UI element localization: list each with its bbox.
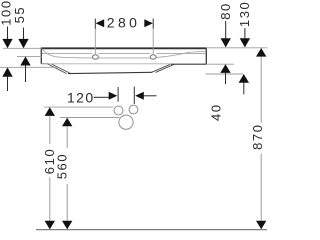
dimension 55 upper stem — [23, 28, 25, 40]
tap hole right — [150, 55, 156, 59]
dimension 610 down arrow — [45, 221, 55, 230]
extension line rim right — [207, 47, 268, 49]
dimension 55 down arrow — [18, 39, 28, 48]
dimension 280 right tick — [152, 19, 154, 29]
washbasin underside bottom line — [68, 72, 152, 73]
svg-text:560: 560 — [54, 153, 69, 180]
extension line 80 lower — [207, 63, 235, 65]
washbasin bowl interior outline — [42, 49, 206, 58]
drain small circle left — [114, 106, 123, 115]
dimension 120 left-pointing arrow — [135, 92, 144, 100]
dimension 80 lower stem — [225, 73, 227, 84]
svg-text:280: 280 — [107, 15, 141, 31]
dimension 560 lower stem — [66, 184, 68, 221]
dimension 120 left tick — [117, 87, 119, 102]
dimension 55 up arrow — [20, 57, 30, 66]
washbasin bottom-right edge — [171, 63, 207, 65]
tap hole left — [93, 55, 99, 59]
svg-text:130: 130 — [237, 1, 252, 28]
dimension 100 up arrow — [2, 67, 12, 76]
drain small circle right — [129, 105, 138, 114]
dimension 280 right arrow — [144, 19, 153, 27]
dimension 560 down arrow — [62, 221, 72, 230]
dimension 100 lower stem — [7, 76, 9, 91]
extension line 130 lower — [206, 73, 244, 75]
dimension 280 right extension — [152, 29, 154, 55]
svg-text:55: 55 — [12, 6, 27, 24]
washbasin bottom-left edge — [41, 63, 48, 65]
dimension 100 down arrow — [2, 39, 12, 48]
dimension 560 upper stem — [66, 126, 68, 148]
dimension 870 lower stem — [260, 154, 262, 222]
dimension 130 upper stem — [244, 28, 246, 39]
svg-text:870: 870 — [250, 123, 265, 150]
svg-text:40: 40 — [209, 103, 224, 121]
extension line rim left — [3, 47, 41, 49]
dimension 120 right-pointing arrow — [109, 92, 118, 100]
dimension 80 up arrow — [220, 64, 230, 73]
svg-text:80: 80 — [218, 2, 233, 20]
dimension 610 upper stem — [49, 116, 51, 144]
svg-text:120: 120 — [67, 90, 95, 106]
washbasin left edge — [40, 48, 42, 64]
dimension 130 up arrow — [239, 74, 249, 83]
extension line 610 — [44, 106, 114, 108]
dimension 55 lower stem — [25, 66, 27, 83]
extension line 100 lower — [0, 66, 57, 68]
floor line — [36, 229, 267, 231]
washbasin right edge — [205, 48, 207, 65]
dimension 120 tail left — [94, 96, 110, 98]
dimension 120 right tick — [133, 87, 135, 104]
washbasin rear bottom edge — [42, 63, 171, 65]
washbasin right chamfer double line — [152, 64, 174, 72]
dimension 610 lower stem — [49, 177, 51, 221]
washbasin deck line — [42, 53, 206, 55]
dimension 80 upper stem — [225, 21, 227, 39]
dimension 130 down arrow — [240, 38, 250, 47]
dimension 120 tail right — [144, 95, 157, 97]
dimension 870 up arrow — [256, 48, 266, 57]
dimension 80 down arrow — [221, 38, 231, 47]
dimension 280 left arrow — [96, 19, 105, 27]
washbasin left chamfer double line — [47, 64, 70, 74]
dimension 560 up arrow — [62, 118, 72, 127]
washbasin rim top edge — [41, 47, 206, 49]
drain large circle — [119, 115, 133, 129]
dimension 100 upper stem — [7, 27, 9, 40]
extension line bowl bottom left — [17, 55, 42, 57]
extension line 560 — [60, 117, 120, 119]
dimension 610 up arrow — [45, 107, 55, 116]
dimension 280 left tick — [94, 19, 96, 29]
dimension 870 upper stem — [260, 57, 262, 123]
dimension 280 left extension — [94, 29, 96, 55]
dimension 870 down arrow — [256, 221, 266, 230]
dimension 130 lower stem — [243, 83, 245, 95]
